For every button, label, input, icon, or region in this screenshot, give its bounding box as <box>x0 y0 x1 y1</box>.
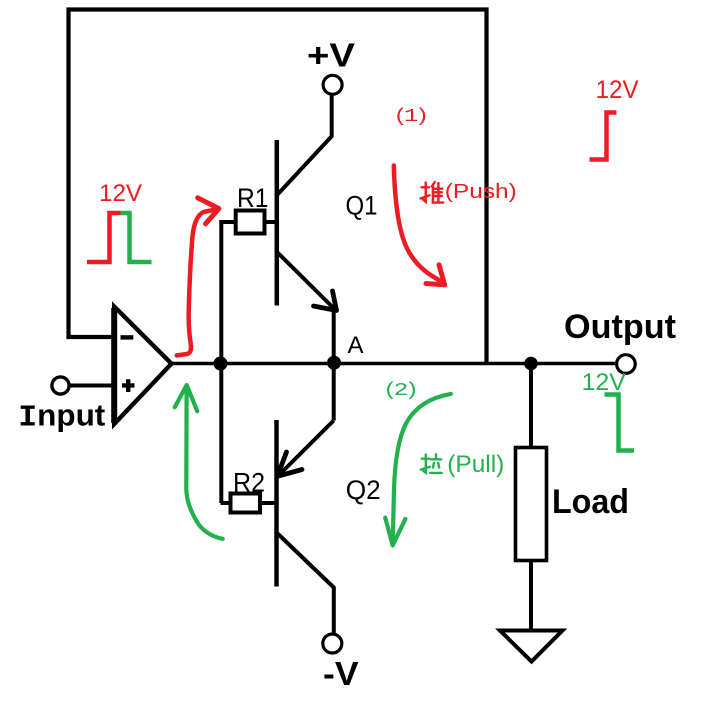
svg-text:Load: Load <box>552 483 629 521</box>
svg-text:12V: 12V <box>99 180 143 207</box>
svg-text:R1: R1 <box>237 183 269 213</box>
svg-text:-V: -V <box>323 655 359 692</box>
svg-text:R2: R2 <box>233 468 265 498</box>
svg-text:(1): (1) <box>396 104 427 127</box>
svg-text:(Push): (Push) <box>445 181 517 203</box>
svg-text:Q2: Q2 <box>346 475 381 505</box>
svg-text:(Pull): (Pull) <box>447 451 504 478</box>
svg-text:Q1: Q1 <box>346 191 378 221</box>
svg-text:12V: 12V <box>582 369 626 396</box>
svg-text:Input: Input <box>18 397 105 435</box>
svg-text:12V: 12V <box>596 76 639 104</box>
svg-text:Output: Output <box>564 308 676 346</box>
svg-text:+V: +V <box>307 37 355 74</box>
svg-text:A: A <box>348 332 364 359</box>
svg-text:(2): (2) <box>386 378 417 401</box>
